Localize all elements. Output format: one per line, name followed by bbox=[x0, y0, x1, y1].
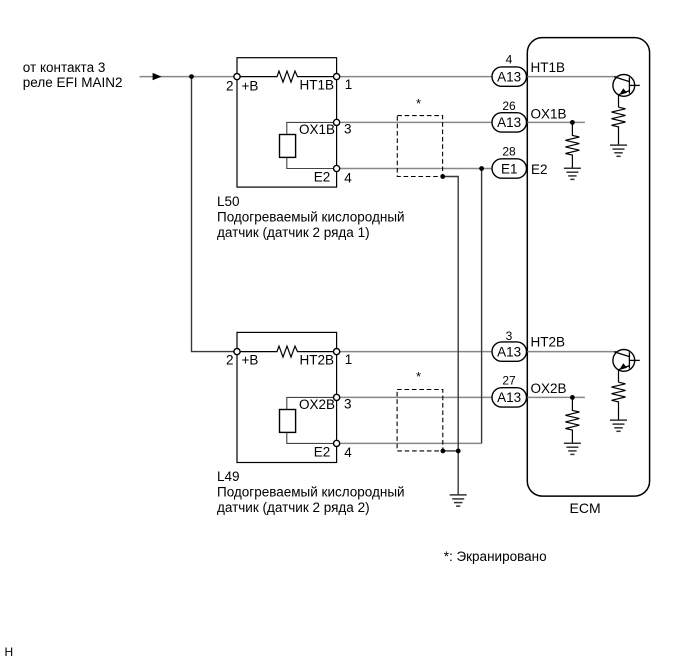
resistor OX2B pulldown bbox=[565, 397, 579, 443]
shield box 1 bbox=[397, 116, 442, 177]
wire OX1B row sensor to ECM bbox=[337, 121, 493, 123]
svg-text:27: 27 bbox=[502, 374, 516, 388]
svg-text:Подогреваемый кислородный: Подогреваемый кислородный bbox=[217, 485, 405, 500]
arrow head bbox=[153, 73, 162, 80]
node E2 junction bbox=[479, 166, 484, 171]
svg-text:OX1B: OX1B bbox=[299, 122, 335, 137]
ground Q2 bbox=[610, 420, 627, 431]
sensor element L49 bbox=[280, 410, 296, 433]
svg-text:1: 1 bbox=[345, 352, 353, 367]
ECM box bbox=[527, 38, 649, 497]
wire emitter Q1 bbox=[618, 95, 620, 107]
pin 1 L50 bbox=[334, 74, 340, 80]
svg-text:HT1B: HT1B bbox=[531, 60, 566, 75]
svg-text:E2: E2 bbox=[531, 162, 548, 177]
svg-text:1: 1 bbox=[345, 77, 353, 92]
svg-text:датчик (датчик 2 ряда 2): датчик (датчик 2 ряда 2) bbox=[217, 500, 370, 515]
node shield drain tee bbox=[456, 449, 461, 454]
wire OX2B inside ECM bbox=[527, 396, 585, 398]
svg-text:OX2B: OX2B bbox=[531, 381, 567, 396]
svg-text:*: * bbox=[416, 96, 421, 111]
svg-text:2: 2 bbox=[226, 78, 234, 93]
connector A13 pin 27 bbox=[492, 388, 527, 407]
wire emitter Q2 bbox=[618, 370, 620, 382]
sensor element L49 internal wires bbox=[287, 397, 334, 409]
wire shield drain bbox=[443, 177, 459, 495]
transistor Q2 (HT2B driver) bbox=[613, 350, 640, 372]
ground shield drain bbox=[450, 495, 467, 506]
pin 4 L49 bbox=[334, 440, 340, 446]
svg-text:Подогреваемый кислородный: Подогреваемый кислородный bbox=[217, 209, 405, 224]
pin 1 L49 bbox=[334, 349, 340, 355]
node OX2B pulldown bbox=[570, 395, 575, 400]
wire E2 vertical down from node bbox=[481, 169, 483, 444]
svg-text:E2: E2 bbox=[314, 444, 331, 459]
wire feed from EFI MAIN2 relay bbox=[140, 76, 238, 78]
svg-text:4: 4 bbox=[344, 170, 352, 185]
svg-text:A13: A13 bbox=[497, 115, 521, 130]
oxygen sensor L50 box bbox=[237, 58, 337, 187]
node junction feed/trunk bbox=[189, 74, 194, 79]
oxygen sensor L49 box bbox=[237, 332, 337, 462]
wire OX2B row sensor to ECM bbox=[337, 396, 493, 398]
svg-text:HT2B: HT2B bbox=[300, 353, 335, 368]
pin 3 L49 bbox=[334, 394, 340, 400]
connector A13 pin 26 bbox=[492, 113, 527, 132]
wire E2 row L49 bbox=[337, 442, 482, 444]
svg-text:OX1B: OX1B bbox=[531, 107, 567, 122]
svg-text:A13: A13 bbox=[497, 69, 521, 84]
heater resistor HT1B (L50) bbox=[240, 71, 334, 82]
svg-text:HT1B: HT1B bbox=[300, 78, 335, 93]
svg-text:3: 3 bbox=[506, 329, 513, 343]
ground OX1B pulldown bbox=[564, 168, 581, 179]
sensor element L50 internal wires bbox=[287, 122, 334, 134]
svg-text:3: 3 bbox=[344, 397, 352, 412]
svg-text:L49: L49 bbox=[217, 469, 240, 484]
resistor OX1B pulldown bbox=[565, 122, 579, 168]
pin 4 L50 bbox=[334, 165, 340, 171]
ground Q1 bbox=[610, 145, 627, 156]
svg-text:Н: Н bbox=[5, 645, 14, 659]
connector E1 pin 28 bbox=[492, 159, 527, 178]
svg-text:4: 4 bbox=[344, 445, 352, 460]
svg-text:+B: +B bbox=[242, 352, 259, 367]
svg-text:3: 3 bbox=[344, 122, 352, 137]
heater resistor HT2B (L49) bbox=[240, 346, 334, 357]
node shield 2 bbox=[441, 449, 446, 454]
svg-text:HT2B: HT2B bbox=[531, 334, 566, 349]
sensor element L50 bbox=[280, 135, 296, 158]
svg-text:+B: +B bbox=[242, 78, 259, 93]
svg-text:L50: L50 bbox=[217, 194, 240, 209]
wire HT2B row sensor to ECM bbox=[337, 351, 493, 353]
svg-text:A13: A13 bbox=[497, 344, 521, 359]
svg-text:E1: E1 bbox=[501, 161, 518, 176]
resistor Q1 emitter bbox=[612, 107, 626, 145]
wire shield 2 link bbox=[443, 450, 458, 452]
svg-text:28: 28 bbox=[502, 144, 516, 158]
wire HT2B inside ECM bbox=[527, 351, 617, 353]
shield box 2 bbox=[397, 390, 443, 451]
svg-text:ECM: ECM bbox=[570, 500, 601, 516]
resistor Q2 emitter bbox=[612, 382, 626, 420]
wire HT1B inside ECM bbox=[527, 76, 617, 78]
node OX1B pulldown bbox=[570, 120, 575, 125]
svg-text:E2: E2 bbox=[314, 170, 331, 185]
svg-text:датчик (датчик 2 ряда 1): датчик (датчик 2 ряда 1) bbox=[217, 225, 370, 240]
svg-text:A13: A13 bbox=[497, 390, 521, 405]
pin 2 L49 bbox=[234, 349, 240, 355]
node shield 1 bbox=[440, 174, 445, 179]
pin 2 L50 bbox=[234, 74, 240, 80]
wire OX1B inside ECM bbox=[527, 121, 585, 123]
svg-text:от контакта 3: от контакта 3 bbox=[23, 60, 106, 75]
wire trunk vertical to L49 bbox=[192, 77, 238, 352]
svg-text:2: 2 bbox=[226, 352, 234, 367]
transistor Q1 (HT1B driver) bbox=[613, 75, 640, 97]
svg-text:4: 4 bbox=[506, 52, 513, 66]
ground OX2B pulldown bbox=[564, 443, 581, 454]
svg-text:*: * bbox=[416, 369, 421, 384]
pin 3 L50 bbox=[334, 119, 340, 125]
svg-text:*: Экранировано: *: Экранировано bbox=[444, 549, 547, 564]
wire HT1B row sensor to ECM bbox=[337, 76, 493, 78]
connector A13 pin 3 bbox=[492, 342, 527, 361]
svg-text:26: 26 bbox=[502, 99, 516, 113]
svg-text:реле EFI MAIN2: реле EFI MAIN2 bbox=[23, 75, 123, 90]
connector A13 pin 4 bbox=[492, 67, 527, 86]
wire E2 row sensor to ECM E1 bbox=[337, 168, 493, 170]
svg-text:OX2B: OX2B bbox=[299, 397, 335, 412]
